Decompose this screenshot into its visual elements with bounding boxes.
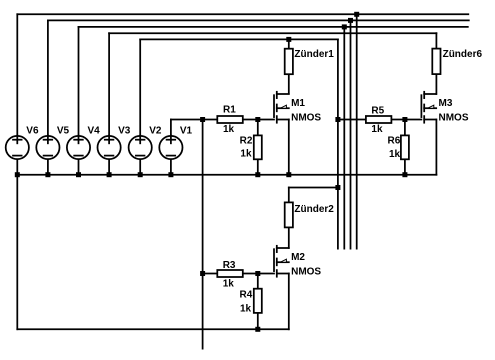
svg-text:NMOS: NMOS	[291, 266, 321, 277]
svg-text:1k: 1k	[223, 278, 235, 289]
svg-text:V1: V1	[180, 126, 193, 137]
svg-text:V4: V4	[88, 126, 101, 137]
svg-text:1k: 1k	[389, 149, 401, 160]
svg-text:1k: 1k	[240, 148, 252, 159]
svg-text:Zünder2: Zünder2	[294, 204, 334, 215]
svg-text:V3: V3	[118, 126, 131, 137]
svg-text:M3: M3	[439, 98, 453, 109]
svg-text:Zünder6: Zünder6	[443, 49, 483, 60]
svg-text:1k: 1k	[371, 124, 383, 135]
svg-text:M1: M1	[291, 98, 305, 109]
svg-text:R6: R6	[388, 136, 401, 147]
svg-text:Zünder1: Zünder1	[294, 49, 334, 60]
svg-text:NMOS: NMOS	[291, 112, 321, 123]
svg-text:R5: R5	[371, 105, 384, 116]
svg-text:R3: R3	[223, 260, 236, 271]
svg-text:M2: M2	[291, 252, 305, 263]
svg-text:R2: R2	[240, 135, 253, 146]
svg-text:NMOS: NMOS	[439, 112, 469, 123]
svg-text:1k: 1k	[240, 304, 252, 315]
svg-text:1k: 1k	[223, 124, 235, 135]
svg-text:V2: V2	[149, 126, 162, 137]
svg-text:R1: R1	[223, 104, 236, 115]
svg-text:V5: V5	[57, 126, 70, 137]
svg-text:V6: V6	[26, 126, 39, 137]
svg-text:R4: R4	[240, 290, 253, 301]
